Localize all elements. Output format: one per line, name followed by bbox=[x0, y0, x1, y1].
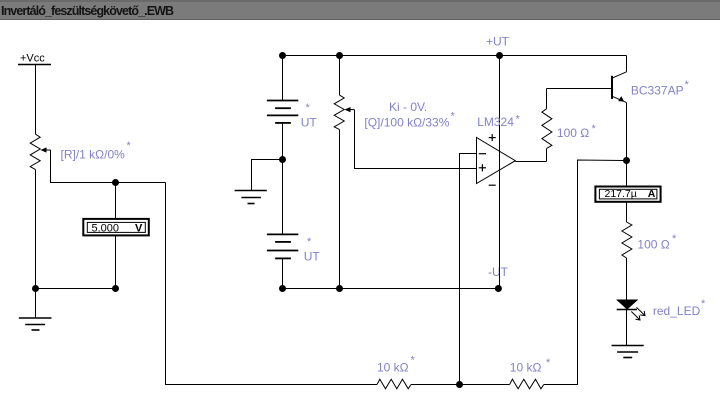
label R3 value bbox=[510, 357, 551, 375]
resistor R6 100 Ohm (LED) bbox=[622, 222, 632, 258]
node dot feedback bbox=[456, 381, 463, 388]
transistor Q1 BC337AP bbox=[612, 56, 627, 161]
svg-text:*: * bbox=[451, 111, 456, 123]
op-amp U1 LM324 bbox=[477, 56, 516, 289]
svg-text:*: * bbox=[411, 355, 416, 367]
wire R5 to Q1 base bbox=[547, 88, 612, 90]
svg-text:Invertáló_feszültségkövető_.EW: Invertáló_feszültségkövető_.EWB bbox=[1, 4, 174, 18]
svg-text:V: V bbox=[135, 223, 143, 235]
svg-text:*: * bbox=[701, 298, 706, 310]
svg-text:[Q]/100 kΩ/33%: [Q]/100 kΩ/33% bbox=[364, 116, 449, 130]
svg-text:*: * bbox=[592, 123, 597, 135]
potentiometer R1 [R]/1 kOhm bbox=[30, 134, 50, 169]
node dot pot Q top bbox=[336, 52, 343, 59]
svg-text:10 kΩ: 10 kΩ bbox=[510, 361, 542, 375]
svg-text:10 kΩ: 10 kΩ bbox=[377, 361, 409, 375]
ground (middle) bbox=[235, 191, 267, 204]
svg-text:*: * bbox=[546, 357, 551, 369]
ground (right, LED) bbox=[612, 346, 644, 358]
svg-text:A: A bbox=[648, 188, 656, 200]
node dot opamp V- bbox=[495, 285, 502, 292]
potentiometer R4 [Q]/100k bbox=[334, 56, 354, 289]
svg-text:UT: UT bbox=[301, 116, 318, 130]
node dot battery bottom bbox=[279, 285, 286, 292]
ground (bottom left) bbox=[19, 289, 52, 331]
label R5 value bbox=[557, 123, 597, 140]
node dot voltmeter minus bbox=[112, 285, 119, 292]
resistor R5 100 Ohm (to base) bbox=[542, 89, 552, 162]
label R4 value bbox=[364, 111, 455, 130]
svg-text:+UT: +UT bbox=[486, 35, 510, 49]
svg-text:217.7µ: 217.7µ bbox=[605, 188, 637, 200]
label D1 bbox=[653, 298, 706, 318]
wire opamp output to R5 bbox=[515, 161, 546, 163]
label U1 bbox=[477, 114, 520, 130]
label V1 bbox=[301, 102, 318, 130]
node +Vcc bbox=[18, 53, 51, 65]
wire wiper line down to bottom net bbox=[166, 183, 378, 385]
svg-text:100 Ω: 100 Ω bbox=[637, 238, 669, 252]
top rail +UT bbox=[283, 55, 627, 57]
node dot output/emitter bbox=[623, 157, 630, 164]
svg-text:*: * bbox=[306, 102, 311, 114]
svg-text:+Vcc: +Vcc bbox=[20, 53, 45, 65]
voltmeter M1 bbox=[83, 183, 149, 289]
svg-text:*: * bbox=[672, 233, 677, 245]
svg-text:5.000: 5.000 bbox=[92, 223, 120, 235]
rail -UT bbox=[283, 288, 499, 290]
svg-text:red_LED: red_LED bbox=[653, 304, 701, 318]
node dot pot Q bottom bbox=[336, 285, 343, 292]
svg-text:*: * bbox=[127, 140, 132, 152]
wire battery mid to ground bbox=[252, 160, 283, 191]
wire +Vcc to R1 top bbox=[35, 65, 37, 135]
wire R3 right up to output node bbox=[544, 160, 624, 385]
wire feedback vertical to inverting input bbox=[460, 154, 477, 385]
node dot wiper/voltmeter bbox=[112, 179, 119, 186]
battery V2 UT (lower) bbox=[267, 160, 298, 289]
node dot battery top bbox=[279, 52, 286, 59]
wire bottom-left node to voltmeter minus bbox=[36, 288, 116, 290]
resistor R3 10k (right) bbox=[510, 379, 544, 389]
svg-text:*: * bbox=[516, 114, 521, 126]
LED D1 red_LED bbox=[617, 300, 645, 346]
node dot battery mid bbox=[279, 156, 286, 163]
svg-text:*: * bbox=[685, 79, 690, 91]
wire Q wiper to opamp plus input bbox=[355, 110, 477, 169]
label V2 bbox=[304, 236, 321, 264]
wire R1 wiper to voltmeter node bbox=[51, 150, 166, 183]
svg-text:100 Ω: 100 Ω bbox=[557, 126, 589, 140]
label Q1 bbox=[631, 79, 690, 98]
svg-text:[R]/1 kΩ/0%: [R]/1 kΩ/0% bbox=[61, 148, 126, 162]
label R6 value bbox=[637, 233, 677, 252]
svg-text:LM324: LM324 bbox=[477, 115, 514, 129]
label R1 value bbox=[61, 140, 132, 162]
label R2 value bbox=[377, 355, 416, 375]
svg-text:UT: UT bbox=[304, 250, 321, 264]
node dot opamp V+ bbox=[496, 52, 503, 59]
svg-text:-UT: -UT bbox=[488, 265, 509, 279]
wire R6 to LED bbox=[626, 258, 628, 300]
node dot bottom-left bbox=[32, 285, 39, 292]
svg-text:BC337AP: BC337AP bbox=[631, 84, 684, 98]
battery V1 UT (upper) bbox=[267, 56, 298, 160]
svg-text:Ki - 0V.: Ki - 0V. bbox=[389, 100, 427, 114]
wire R1 bottom to ground node bbox=[35, 170, 37, 289]
resistor R2 10k (left) bbox=[377, 379, 411, 389]
wire R2 to feedback node bbox=[411, 384, 460, 386]
svg-text:*: * bbox=[307, 236, 312, 248]
ammeter M2 bbox=[595, 161, 660, 223]
wire feedback node to R3 bbox=[460, 384, 510, 386]
title bar bbox=[0, 0, 720, 20]
